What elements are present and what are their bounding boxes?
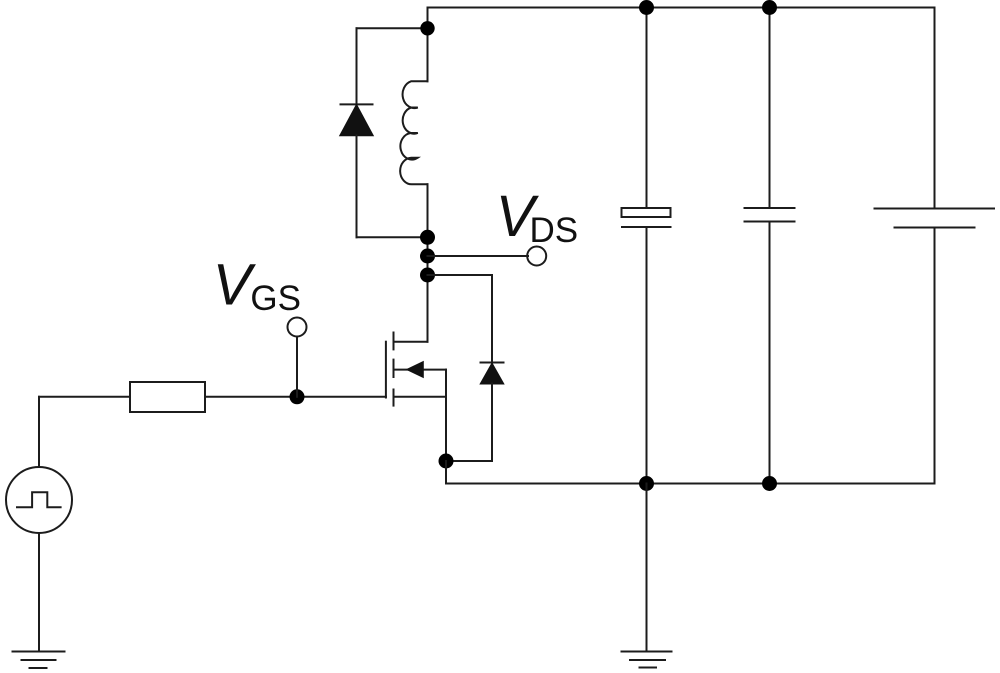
transistor Q1 drain lead	[394, 341, 428, 343]
capacitor C1 electrolytic top plate	[622, 208, 671, 217]
probe terminal VDS	[527, 247, 546, 266]
wire body diode top	[428, 275, 493, 363]
wire flyback top	[357, 27, 428, 29]
transistor Q1 body arrow	[408, 362, 423, 376]
capacitor C1 electrolytic bottom plate	[622, 226, 671, 228]
battery positive plate	[875, 208, 995, 210]
capacitor C2 bottom plate	[745, 221, 795, 223]
wire ground center	[646, 484, 648, 652]
junction dot C2 top	[762, 0, 777, 15]
wire source to bottom rail	[445, 461, 447, 484]
junction dot C1 top	[639, 0, 654, 15]
capacitor C2 wire lower	[769, 222, 771, 484]
capacitor C1 wire lower	[646, 227, 648, 484]
wire pulse source top	[38, 397, 40, 467]
pulse source V1 waveform	[17, 492, 61, 507]
wire drain branch mid	[427, 184, 429, 341]
wire bottom rail	[446, 483, 935, 485]
battery negative plate	[895, 227, 975, 229]
resistor R gate	[130, 382, 205, 412]
junction dot source node	[439, 454, 454, 469]
wire flyback bottom	[357, 236, 428, 238]
junction dot drain node body-diode	[420, 268, 435, 283]
junction dot flyback top node	[420, 21, 434, 35]
transistor Q1 body lead	[394, 369, 447, 371]
battery wire lower	[934, 228, 936, 484]
transistor Q1 channel dash source	[393, 390, 395, 406]
diode D1 freewheeling triangle	[341, 106, 373, 136]
wire flyback left lower	[356, 135, 358, 237]
capacitor C2 wire upper	[769, 8, 771, 209]
transistor Q1 channel dash drain	[393, 333, 395, 350]
transistor Q1 source lead	[394, 396, 447, 398]
capacitor C2 top plate	[745, 207, 795, 209]
ground signal left	[13, 652, 65, 669]
label VGS	[213, 253, 301, 319]
wire body diode bottom	[446, 384, 492, 462]
wire pulse source bottom	[38, 533, 40, 652]
wire top rail	[428, 7, 935, 9]
junction dot drain node upper	[420, 230, 435, 245]
inductor L	[400, 81, 427, 184]
battery wire upper	[934, 8, 936, 209]
wire flyback left upper	[356, 28, 358, 104]
diode D2 body cathode bar	[481, 362, 504, 364]
wire VGS probe	[296, 337, 298, 397]
wire VDS probe	[428, 255, 529, 257]
junction dot gate probe node	[290, 389, 305, 404]
junction dot C2 bottom	[762, 476, 777, 491]
diode D2 body triangle	[481, 364, 503, 384]
transistor Q1 right vertical	[445, 370, 447, 461]
svg-text:DS: DS	[530, 211, 579, 250]
transistor Q1 gate line	[385, 342, 387, 398]
pulse source V1 circle	[6, 467, 72, 533]
wire source-resistor	[39, 396, 130, 398]
diode D1 freewheeling cathode bar	[341, 103, 373, 105]
transistor Q1 channel dash body	[393, 360, 395, 377]
svg-text:GS: GS	[250, 279, 301, 318]
junction dot drain node probe	[420, 249, 435, 264]
wire drain branch upper	[427, 8, 429, 82]
junction dot C1 bottom	[639, 476, 654, 491]
ground power center	[622, 652, 672, 668]
label VDS	[496, 184, 578, 250]
capacitor C1 wire upper	[646, 8, 648, 209]
wire gate	[205, 396, 386, 398]
probe terminal VGS	[288, 318, 307, 337]
